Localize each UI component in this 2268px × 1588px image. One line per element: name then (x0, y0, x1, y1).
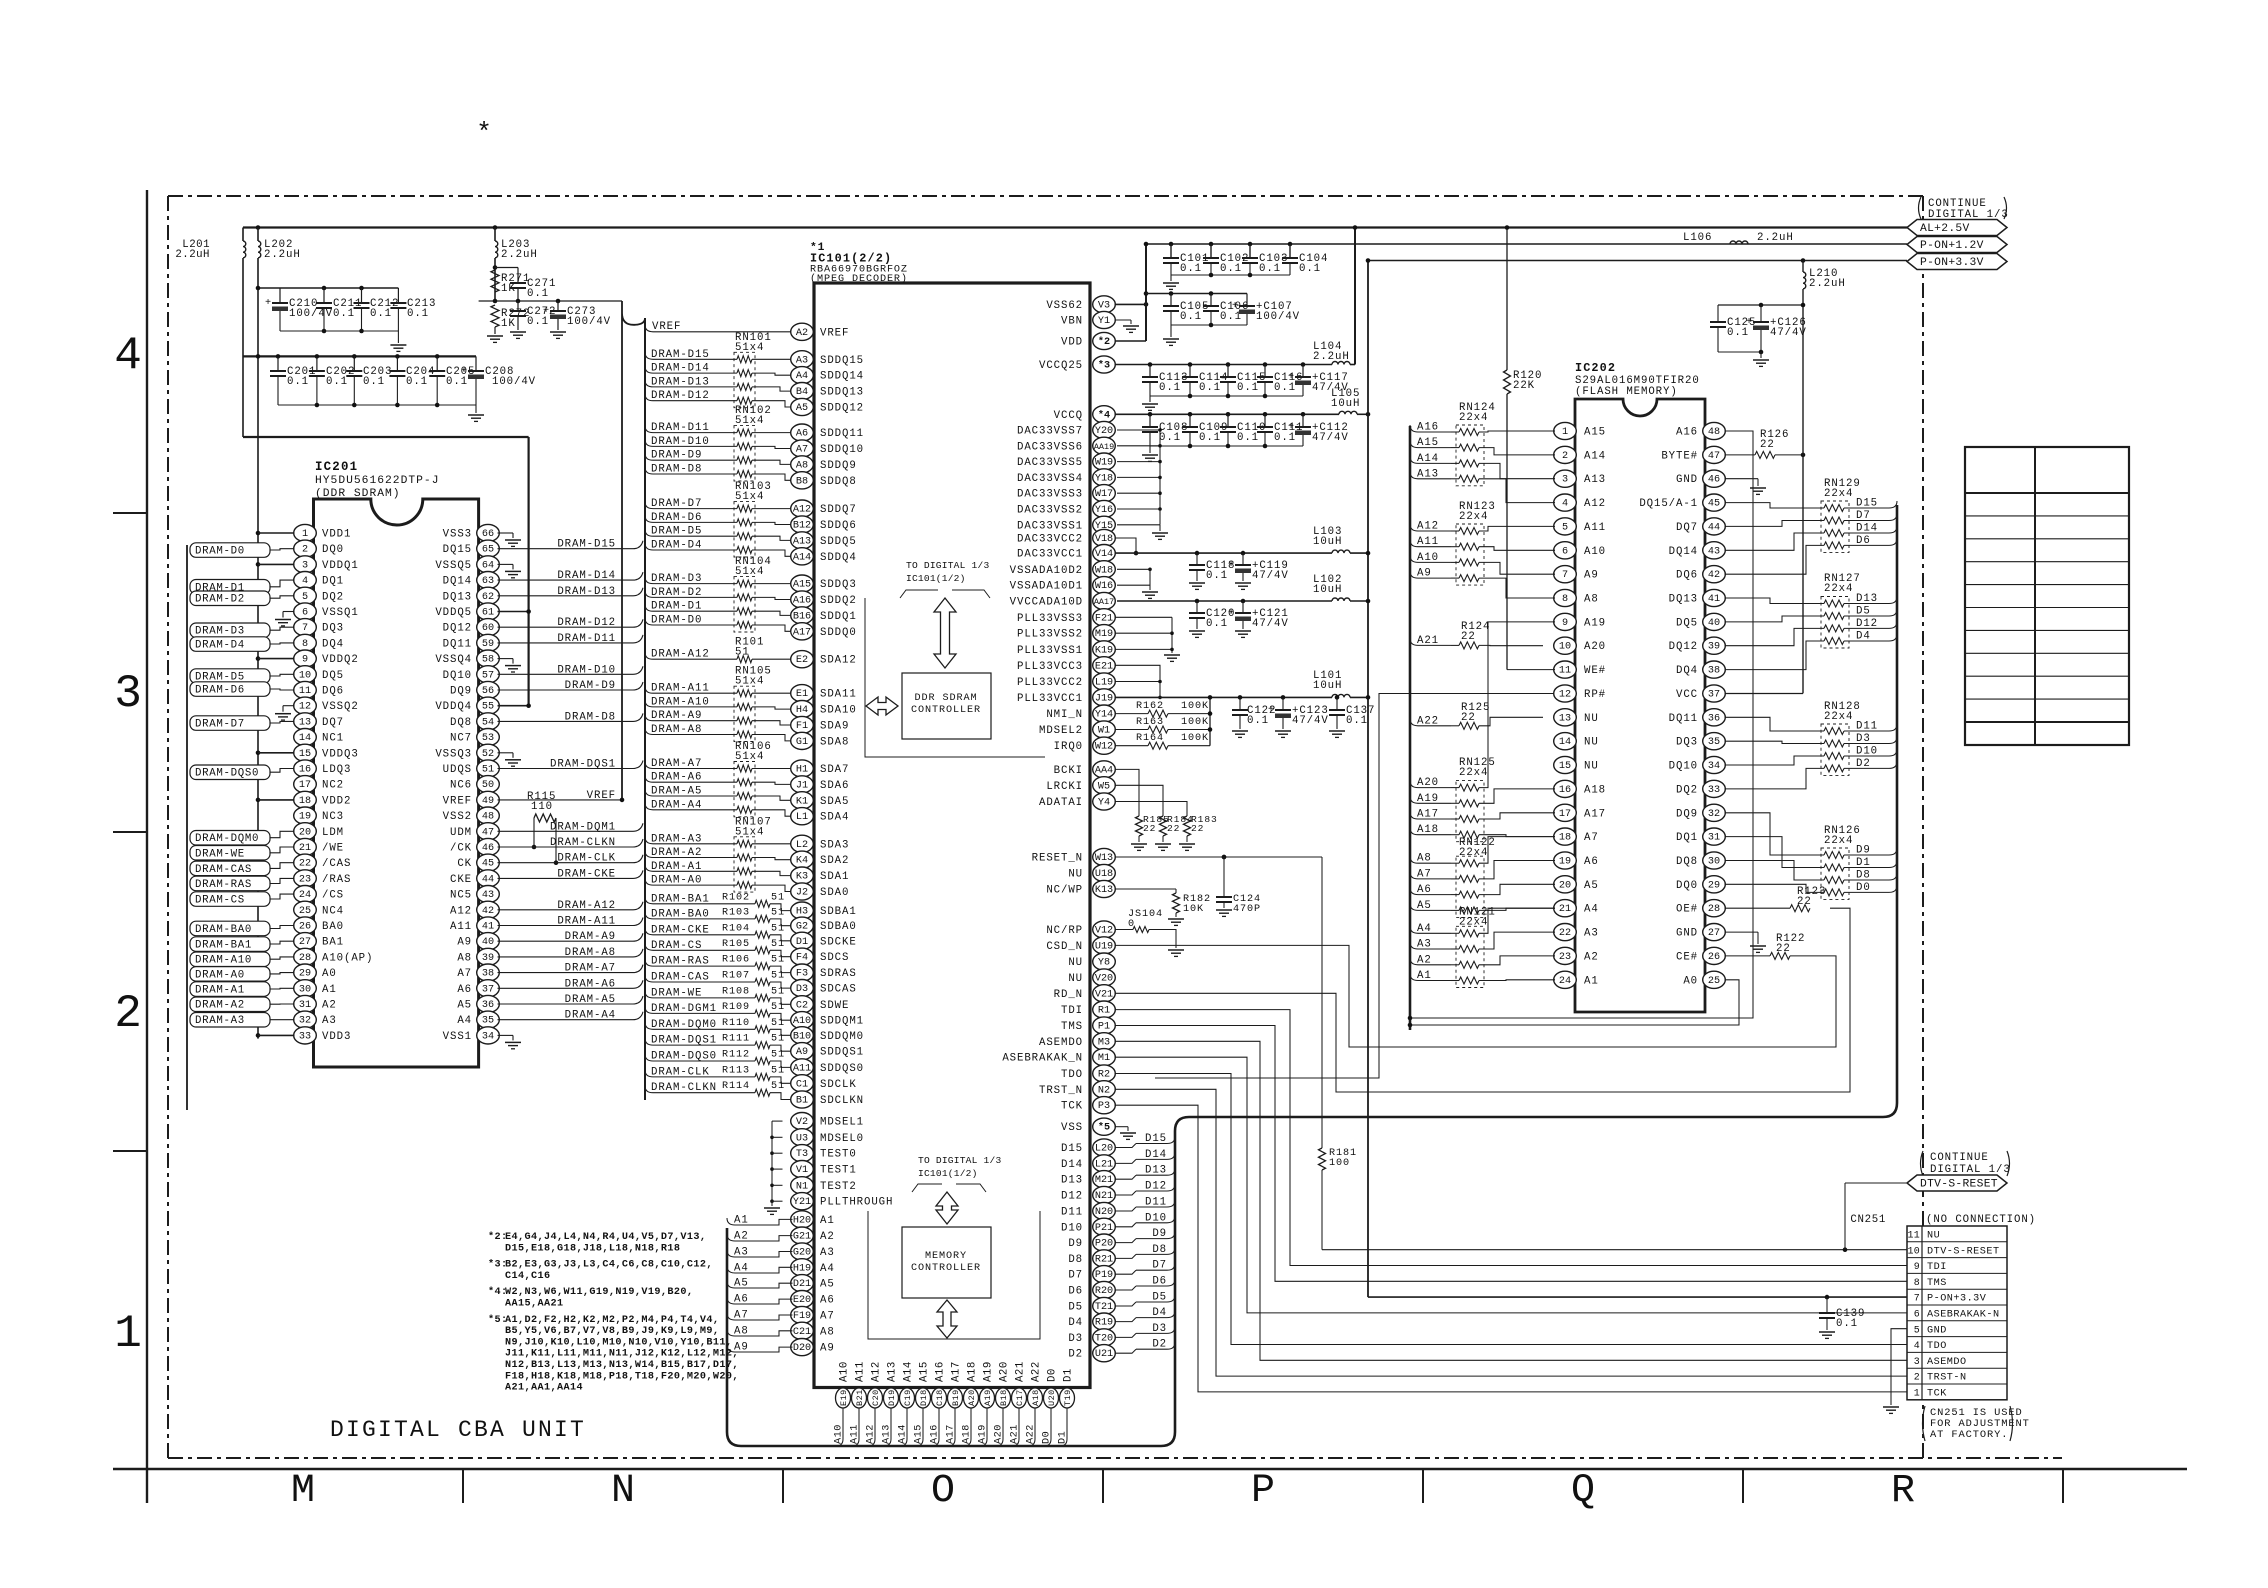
svg-text:VSS: VSS (1061, 1122, 1083, 1134)
svg-text:DAC33VSS7: DAC33VSS7 (1017, 426, 1083, 438)
capacitor C109 (1188, 412, 1193, 417)
IC201 pin 63 DQ14 (477, 572, 500, 589)
svg-text:DQ1: DQ1 (1676, 832, 1698, 844)
svg-text:22x4: 22x4 (1824, 488, 1853, 500)
svg-text:4: 4 (302, 576, 308, 587)
block DDR SDRAM CONTROLLER (902, 673, 991, 739)
wire DRAM-A12 from IC201 pin 42 (498, 909, 634, 911)
svg-text:51: 51 (771, 1065, 785, 1076)
svg-text:D14: D14 (1061, 1159, 1083, 1171)
svg-text:V14: V14 (1095, 549, 1113, 560)
svg-text:IC101(1/2): IC101(1/2) (906, 573, 966, 584)
tag D9 (1844, 854, 1889, 856)
resistor network RN103 (734, 502, 755, 557)
svg-text:VSSQ4: VSSQ4 (435, 654, 472, 666)
svg-text:DRAM-CLK: DRAM-CLK (557, 853, 616, 865)
IC101 pin J19 PLL33VCC1 (1093, 689, 1116, 706)
wire DQ to D12 (1725, 628, 1825, 645)
svg-text:H1: H1 (796, 765, 808, 776)
svg-text:57: 57 (482, 670, 494, 681)
IC101 pin W1 MDSEL2 (1093, 721, 1116, 738)
inductor L201 (242, 228, 244, 242)
svg-text:46: 46 (1708, 475, 1720, 486)
IC202 pin 23 A2 (1554, 947, 1577, 964)
svg-text:26: 26 (1708, 952, 1720, 963)
svg-text:39: 39 (482, 953, 494, 964)
svg-text:DRAM-D13: DRAM-D13 (557, 586, 616, 598)
svg-text:0.1: 0.1 (1220, 311, 1242, 323)
svg-text:TRST-N: TRST-N (1927, 1373, 1967, 1384)
resistor R184 (1160, 816, 1167, 836)
svg-text:47/4V: 47/4V (1252, 570, 1289, 582)
svg-text:R20: R20 (1095, 1286, 1113, 1297)
svg-text:B8: B8 (796, 476, 808, 487)
IC101 pin V3 VSS62 (1093, 296, 1116, 313)
IC201 pin 23 /RAS (294, 870, 317, 887)
svg-text:DQ9: DQ9 (450, 686, 472, 698)
svg-text:O: O (931, 1469, 955, 1514)
svg-text:19: 19 (1559, 857, 1571, 868)
wire VREF from IC201 pin 49 (498, 799, 623, 801)
wire ASEBRAKAK_N (1115, 1057, 1908, 1313)
svg-text:DRAM-A11: DRAM-A11 (557, 916, 616, 928)
svg-text:51x4: 51x4 (735, 676, 764, 688)
capacitor C114 (1188, 362, 1193, 367)
IC101 pin H19 A4 (791, 1259, 814, 1276)
wire RP# pin12 route (1155, 694, 1555, 1079)
svg-text:OE#: OE# (1676, 904, 1698, 916)
svg-text:20: 20 (1559, 880, 1571, 891)
wire DRAM-DQM1 from IC201 pin 47 (498, 830, 634, 832)
IC101 pin A12 SDDQ7 (791, 500, 814, 517)
wire DRAM-D10 from IC201 pin 57 (498, 673, 634, 675)
IC202 pin 36 DQ11 (1703, 709, 1726, 726)
svg-text:IRQ0: IRQ0 (1054, 741, 1083, 753)
svg-text:DRAM-D7: DRAM-D7 (195, 719, 245, 731)
svg-text:RP#: RP# (1584, 689, 1606, 701)
arrow bidirectional left of controller (866, 697, 898, 715)
svg-text:22: 22 (1559, 928, 1571, 939)
tag DRAM-D0 (190, 543, 270, 558)
svg-text:0.1: 0.1 (1274, 432, 1296, 444)
svg-text:AA4: AA4 (1095, 765, 1113, 776)
IC101 pin V14 DAC33VCC1 (1093, 545, 1116, 562)
svg-text:D13: D13 (1061, 1175, 1083, 1187)
IC201 pin 27 BA1 (294, 933, 317, 950)
svg-text:A8: A8 (820, 1326, 835, 1338)
IC202 pin 9 A19 (1554, 613, 1577, 630)
svg-text:47: 47 (482, 827, 494, 838)
IC101 pin H20 A1 (791, 1211, 814, 1228)
IC201 pin 25 NC4 (294, 901, 317, 918)
svg-text:UDQS: UDQS (443, 764, 472, 776)
IC202 pin 31 DQ1 (1703, 828, 1726, 845)
svg-text:A2: A2 (1584, 951, 1599, 963)
svg-text:DIGITAL 1/3: DIGITAL 1/3 (1930, 1164, 2011, 1176)
tag DRAM-D2 (190, 591, 270, 606)
svg-text:IC101(1/2): IC101(1/2) (918, 1168, 978, 1179)
svg-text:U18: U18 (1095, 869, 1113, 880)
svg-text:0.1: 0.1 (527, 316, 549, 328)
svg-text:22x4: 22x4 (1459, 767, 1488, 779)
svg-text:11: 11 (299, 686, 311, 697)
svg-text:C14,C16: C14,C16 (505, 1271, 550, 1282)
IC101 pin Y20 DAC33VSS7 (1093, 421, 1116, 438)
svg-text:T21: T21 (1095, 1302, 1113, 1313)
IC201 pin 28 A10(AP) (294, 948, 317, 965)
svg-text:D9: D9 (1068, 1238, 1083, 1250)
wire TDI (1115, 1010, 1908, 1266)
svg-text:A5: A5 (796, 403, 808, 414)
svg-text:22: 22 (299, 859, 311, 870)
wire VSS62 V3 (1115, 303, 1147, 305)
wire DQ to D14 (1725, 533, 1825, 550)
IC201 pin 53 NC7 (477, 729, 500, 746)
svg-text:DRAM-CKE: DRAM-CKE (557, 868, 616, 880)
svg-text:R105: R105 (722, 939, 750, 950)
tag DRAM-A2 (190, 997, 270, 1012)
svg-text:+: + (1288, 372, 1294, 383)
svg-text:DQ9: DQ9 (1676, 808, 1698, 820)
tag D5 (1115, 1302, 1137, 1306)
svg-text:DRAM-WE: DRAM-WE (195, 848, 245, 860)
svg-text:G1: G1 (796, 737, 808, 748)
capacitor C110 (1226, 412, 1231, 417)
IC101 pin AA4 BCKI (1093, 761, 1116, 778)
svg-text:DQ11: DQ11 (443, 638, 472, 650)
capacitor C205 (436, 356, 438, 371)
svg-text:D18: D18 (919, 1389, 929, 1406)
svg-text:A20: A20 (967, 1389, 977, 1406)
svg-text:SDA3: SDA3 (820, 839, 849, 851)
svg-text:DAC33VCC1: DAC33VCC1 (1017, 549, 1083, 561)
IC202 pin 24 A1 (1554, 971, 1577, 988)
IC101 pin K1 SDA5 (791, 792, 814, 809)
IC201 pin 43 NC5 (477, 886, 500, 903)
svg-text:DRAM-D3: DRAM-D3 (195, 626, 245, 638)
tag D12 (1844, 627, 1889, 629)
IC201 pin 60 DQ12 (477, 619, 500, 636)
arrow below MEMORY controller (937, 1300, 957, 1338)
wire AL+2.5V rail (243, 226, 1907, 228)
PLL33VCC wires (1115, 665, 1161, 697)
svg-text:0.1: 0.1 (1727, 327, 1749, 339)
svg-text:CONTROLLER: CONTROLLER (911, 1263, 981, 1274)
svg-text:8: 8 (1914, 1277, 1920, 1288)
svg-text:P21: P21 (1095, 1223, 1113, 1234)
svg-text:DQ8: DQ8 (450, 717, 472, 729)
svg-text:D3: D3 (1152, 1323, 1167, 1335)
ground VBN Y1 (1115, 319, 1132, 321)
svg-text:N20: N20 (1095, 1207, 1113, 1218)
svg-text:SDDQ5: SDDQ5 (820, 536, 857, 548)
IC202 pin 43 DQ14 (1703, 542, 1726, 559)
svg-text:2.2uH: 2.2uH (175, 249, 210, 261)
svg-text:28: 28 (1708, 904, 1720, 915)
resistor R271 (493, 265, 498, 270)
IC201 pin 56 DQ9 (477, 681, 500, 698)
svg-text:TEST1: TEST1 (820, 1165, 857, 1177)
capacitor C211 (323, 288, 325, 303)
svg-text:Y14: Y14 (1095, 710, 1113, 721)
svg-text:D7: D7 (1068, 1270, 1083, 1282)
IC202 pin 30 DQ8 (1703, 852, 1726, 869)
IC202 pin 44 DQ7 (1703, 518, 1726, 535)
tag DRAM-D6 (190, 682, 270, 697)
svg-text:100K: 100K (1181, 701, 1209, 712)
wire A16 pin48 to bus (1410, 431, 1753, 1018)
svg-text:PLL33VSS3: PLL33VSS3 (1017, 613, 1083, 625)
svg-text:M: M (291, 1469, 315, 1514)
svg-text:LDQ3: LDQ3 (322, 764, 351, 776)
IC101 pin D1 SDCKE (791, 932, 814, 949)
svg-text:(NO CONNECTION): (NO CONNECTION) (1926, 1214, 2036, 1226)
IC202 pin 14 NU (1554, 733, 1577, 750)
IC201 pin 41 A11 (477, 917, 500, 934)
svg-text:42: 42 (482, 906, 494, 917)
capacitor C120 (1195, 599, 1200, 604)
IC202 pin 20 A5 (1554, 876, 1577, 893)
svg-text:DQ0: DQ0 (322, 544, 344, 556)
svg-text:N9,J10,K10,L10,M10,N10,V10,Y10: N9,J10,K10,L10,M10,N10,V10,Y10,B11, (505, 1337, 732, 1348)
wire DRAM-D12 from IC201 pin 60 (498, 626, 634, 628)
svg-text:11: 11 (1907, 1230, 1920, 1241)
svg-text:PLL33VCC2: PLL33VCC2 (1017, 677, 1083, 689)
svg-text:0.1: 0.1 (527, 288, 549, 300)
svg-text:R113: R113 (722, 1065, 750, 1076)
wire CSD_N to CE# (1115, 945, 1837, 1047)
IC101 pin U19 CSD_N (1093, 937, 1116, 954)
svg-text:R19: R19 (1095, 1318, 1113, 1329)
svg-text:15: 15 (299, 749, 311, 760)
svg-text:A13: A13 (793, 536, 811, 547)
tag D4 (1115, 1318, 1137, 1322)
tag D2 (1115, 1349, 1137, 1353)
IC202 pin 8 A8 (1554, 589, 1577, 606)
IC201 pin 17 NC2 (294, 776, 317, 793)
svg-text:51: 51 (771, 1018, 785, 1029)
svg-text:D1: D1 (796, 937, 808, 948)
tag DRAM-CS (190, 892, 270, 907)
svg-text:PLL33VCC1: PLL33VCC1 (1017, 693, 1083, 705)
border frame ruler bottom (113, 1468, 2187, 1470)
IC201 pin 9 VDDQ2 (294, 650, 317, 667)
svg-text:P19: P19 (1095, 1270, 1113, 1281)
IC101 pin Y14 NMI_N (1093, 705, 1116, 722)
IC101 pin U3 MDSEL0 (791, 1129, 814, 1146)
svg-text:VCCQ25: VCCQ25 (1039, 360, 1083, 372)
svg-text:ASEMDO: ASEMDO (1039, 1037, 1083, 1049)
wire DQ to D5 (1725, 616, 1825, 622)
IC101 pin K4 SDA2 (791, 851, 814, 868)
svg-text:A15: A15 (793, 580, 811, 591)
IC101 pin N2 TRST_N (1093, 1081, 1116, 1098)
svg-text:TMS: TMS (1061, 1021, 1083, 1033)
svg-text:5: 5 (302, 592, 308, 603)
svg-text:H20: H20 (793, 1215, 811, 1226)
svg-text:62: 62 (482, 592, 494, 603)
svg-text:DRAM-DQM1: DRAM-DQM1 (550, 821, 616, 833)
wire RD_N to OE# (1115, 908, 1851, 1092)
resistor R183 (1184, 816, 1191, 836)
svg-text:A22: A22 (1031, 1361, 1043, 1382)
tag DRAM-D3 (190, 623, 270, 638)
svg-text:A9: A9 (457, 937, 472, 949)
svg-text:A15: A15 (1584, 427, 1606, 439)
svg-text:V1: V1 (796, 1165, 808, 1176)
capacitor C139 (1826, 1297, 1828, 1313)
svg-text:D8: D8 (1068, 1254, 1083, 1266)
svg-text:54: 54 (482, 717, 494, 728)
svg-text:SDDQS0: SDDQS0 (820, 1063, 864, 1075)
svg-text:64: 64 (482, 560, 494, 571)
svg-text:A4: A4 (796, 371, 808, 382)
svg-text:22x4: 22x4 (1459, 412, 1488, 424)
svg-text:7: 7 (1562, 570, 1568, 581)
svg-text:D6: D6 (1856, 535, 1871, 547)
svg-text:DRAM-A3: DRAM-A3 (195, 1015, 245, 1027)
IC101 pin A7 SDDQ10 (791, 440, 814, 457)
flag P-ON+1.2V (1907, 237, 2007, 253)
svg-text:48: 48 (482, 812, 494, 823)
IC201 pin 31 A2 (294, 995, 317, 1012)
svg-text:+: + (1232, 301, 1238, 312)
IC202 pin 11 WE# (1554, 661, 1577, 678)
svg-text:N: N (611, 1469, 635, 1514)
svg-text:35: 35 (482, 1016, 494, 1027)
svg-text:22K: 22K (1513, 380, 1535, 392)
svg-text:E20: E20 (793, 1295, 811, 1306)
IC101 pin W12 IRQ0 (1093, 737, 1116, 754)
block MEMORY CONTROLLER (902, 1227, 991, 1298)
IC101 pin A9 SDDQS1 (791, 1043, 814, 1060)
IC202 pin 34 DQ10 (1703, 756, 1726, 773)
svg-text:A2: A2 (322, 1000, 337, 1012)
svg-text:VCCQ: VCCQ (1054, 410, 1083, 422)
IC202 pin 25 A0 (1703, 971, 1726, 988)
wire VREF U-turn to tag (622, 301, 645, 800)
svg-text:VDDQ2: VDDQ2 (322, 654, 359, 666)
svg-text:51: 51 (771, 986, 785, 997)
svg-text:VDDQ1: VDDQ1 (322, 560, 359, 572)
wire to DTV-S-RESET flag (1843, 1247, 1848, 1252)
svg-text:NU: NU (1584, 737, 1599, 749)
svg-text:*2: *2 (1098, 336, 1110, 348)
svg-text:*5: *5 (1098, 1122, 1110, 1134)
svg-text:SDDQ1: SDDQ1 (820, 611, 857, 623)
svg-text:DQ4: DQ4 (322, 638, 344, 650)
tag D5 (1844, 615, 1889, 617)
svg-text:10: 10 (1559, 642, 1571, 653)
svg-text:D3: D3 (1068, 1333, 1083, 1345)
svg-text:SDA5: SDA5 (820, 796, 849, 808)
svg-text:A10: A10 (793, 1016, 811, 1027)
svg-text:DRAM-A12: DRAM-A12 (557, 900, 616, 912)
svg-text:B2,E3,G3,J3,L3,C4,C6,C8,C10,C1: B2,E3,G3,J3,L3,C4,C6,C8,C10,C12, (505, 1260, 713, 1271)
svg-text:21: 21 (1559, 904, 1571, 915)
svg-text:30: 30 (1708, 857, 1720, 868)
IC101 pin G21 A2 (791, 1227, 814, 1244)
svg-text:DQ13: DQ13 (443, 591, 472, 603)
IC201 right ground pins (498, 532, 514, 534)
IC101 pin C21 A8 (791, 1322, 814, 1339)
wire DRAM-A4 from IC201 pin 35 (498, 1019, 634, 1021)
svg-text:W2,N3,W6,W11,G19,N19,V19,B20,: W2,N3,W6,W11,G19,N19,V19,B20, (505, 1287, 693, 1298)
wire DRAM-A11 from IC201 pin 41 (498, 925, 634, 927)
IC101 pin J1 SDA6 (791, 776, 814, 793)
svg-text:DRAM-D6: DRAM-D6 (195, 685, 245, 697)
svg-text:RESET_N: RESET_N (1032, 853, 1083, 865)
IC201 pin 54 DQ8 (477, 713, 500, 730)
svg-text:51: 51 (771, 1050, 785, 1061)
svg-text:31: 31 (1708, 833, 1720, 844)
svg-text:*3: *3 (1098, 360, 1110, 372)
svg-text:2.2uH: 2.2uH (1809, 278, 1846, 290)
IC101 pin L1 SDA4 (791, 808, 814, 825)
svg-text:P1: P1 (1098, 1022, 1110, 1033)
svg-text:IC101(2/2): IC101(2/2) (810, 252, 892, 266)
svg-text:0.1: 0.1 (1199, 432, 1221, 444)
svg-text:48: 48 (1708, 427, 1720, 438)
IC201 pin 65 DQ15 (477, 540, 500, 557)
IC201 pin 44 CKE (477, 870, 500, 887)
svg-text:B21: B21 (855, 1389, 865, 1406)
wire TDO (1115, 1074, 1908, 1345)
svg-text:R109: R109 (722, 1002, 750, 1013)
border frame ruler left (146, 190, 148, 1503)
svg-text:59: 59 (482, 639, 494, 650)
svg-text:D11: D11 (1061, 1207, 1083, 1219)
svg-text:V3: V3 (1098, 300, 1110, 311)
svg-text:47/4V: 47/4V (1770, 327, 1807, 339)
svg-text:Y8: Y8 (1098, 958, 1110, 969)
svg-text:C17: C17 (1015, 1389, 1025, 1406)
IC101 pin J2 SDA0 (791, 883, 814, 900)
IC201 pin 18 VDD2 (294, 791, 317, 808)
svg-text:RD_N: RD_N (1054, 989, 1083, 1001)
inductor L101 (1332, 694, 1350, 697)
resistor R272 (491, 305, 499, 327)
IC201 pin 64 VSSQ5 (477, 556, 500, 573)
capacitor C203 (353, 356, 355, 371)
svg-text:51x4: 51x4 (735, 826, 764, 838)
svg-text:DRAM-DQS1: DRAM-DQS1 (550, 759, 616, 771)
IC101 pin N1 TEST2 (791, 1177, 814, 1194)
svg-text:9: 9 (1914, 1261, 1920, 1272)
svg-text:K13: K13 (1095, 885, 1113, 896)
svg-text:51: 51 (771, 907, 785, 918)
svg-text:DQ3: DQ3 (322, 623, 344, 635)
svg-text:DRAM-D8: DRAM-D8 (565, 711, 616, 723)
resistor R181 100 in series (1319, 1148, 1326, 1170)
svg-text:33: 33 (1708, 785, 1720, 796)
inductor L105 (1339, 411, 1357, 414)
IC201 pin 62 DQ13 (477, 587, 500, 604)
IC201 pin 24 /CS (294, 886, 317, 903)
wire DQ to D15 (1725, 503, 1825, 508)
capacitor C108 (1148, 412, 1153, 417)
svg-text:H19: H19 (793, 1263, 811, 1274)
bus IC202 address leg (1409, 426, 1412, 1030)
svg-text:SDRAS: SDRAS (820, 968, 857, 980)
svg-text:PLLTHROUGH: PLLTHROUGH (820, 1197, 893, 1209)
resistor R185 (1136, 816, 1143, 836)
svg-text:A7: A7 (796, 445, 808, 456)
IC101 pin A4 SDDQ14 (791, 367, 814, 384)
IC101 pin Y16 DAC33VSS2 (1093, 500, 1116, 517)
svg-text:IC201: IC201 (315, 460, 358, 474)
svg-text:D2: D2 (1068, 1349, 1083, 1361)
